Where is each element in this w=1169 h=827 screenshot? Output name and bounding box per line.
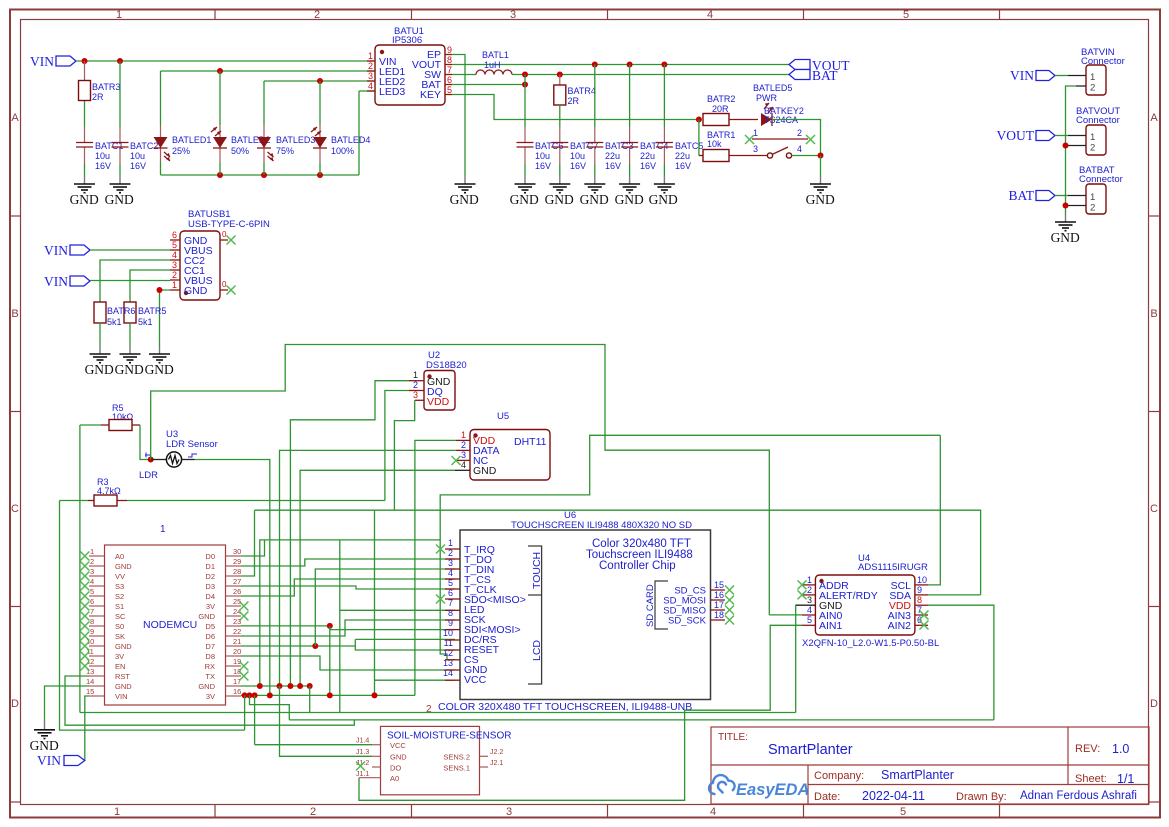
capacitor BATC6 [517, 141, 564, 171]
wire DHT11 DATA [280, 450, 457, 686]
svg-text:B: B [1150, 308, 1157, 320]
svg-text:10u: 10u [95, 151, 110, 161]
svg-text:SD CARD: SD CARD [645, 584, 656, 627]
ground GND (col 820) [806, 176, 835, 207]
ground GND (bottom left) [30, 720, 59, 753]
wire 3V16 rail [241, 694, 415, 696]
junction VIN-BATC2 [117, 58, 123, 64]
wire U2 GND pin1 [290, 381, 409, 686]
svg-text:5k1: 5k1 [138, 317, 153, 327]
wire switch to GND [820, 156, 822, 177]
svg-text:BATLED1: BATLED1 [172, 135, 211, 145]
svg-text:DHT11: DHT11 [514, 436, 547, 448]
wire BATC5 column (x664.4) [663, 65, 665, 177]
net flag VIN (bottom) [37, 753, 85, 768]
no-connect X U4 AIN3/AIN2 [920, 611, 929, 630]
svg-text:15: 15 [714, 580, 724, 590]
svg-text:KEY: KEY [420, 89, 441, 101]
svg-text:RX: RX [205, 662, 215, 671]
wire LED1 net (pin2) [161, 70, 376, 72]
svg-text:VIN: VIN [37, 753, 61, 768]
ruler numbers bottom [114, 806, 906, 818]
svg-text:3: 3 [368, 71, 373, 81]
svg-text:SENS.1: SENS.1 [443, 764, 470, 773]
svg-text:4: 4 [707, 9, 713, 21]
svg-text:TX: TX [205, 672, 215, 681]
LED BATLED5 PWR [753, 83, 804, 126]
resistor BATR6 [94, 302, 106, 346]
wire LDR right to A0 column [195, 460, 270, 696]
svg-text:4: 4 [368, 81, 373, 91]
wire D5 to SDI [241, 626, 455, 630]
wire LED row to U6 [340, 609, 455, 611]
no-connect X U6 SDO [436, 595, 445, 604]
svg-text:GND: GND [115, 642, 132, 651]
svg-text:BATR3: BATR3 [92, 82, 120, 92]
wire D2 to SDA line [241, 510, 255, 576]
svg-text:10u: 10u [535, 151, 550, 161]
junction BAT col525 [522, 72, 528, 78]
svg-text:D8: D8 [205, 652, 215, 661]
svg-text:GND: GND [184, 285, 208, 297]
svg-text:6: 6 [447, 75, 452, 85]
svg-text:BATLED4: BATLED4 [331, 135, 370, 145]
wire BATVIN pin2 down (GND column) [1066, 86, 1077, 214]
capacitor BATC4 [621, 141, 668, 171]
svg-text:16V: 16V [95, 161, 111, 171]
svg-text:USB-TYPE-C-6PIN: USB-TYPE-C-6PIN [188, 219, 270, 230]
svg-text:LED3: LED3 [379, 86, 405, 98]
LED BATLED1 [154, 135, 212, 161]
wire R3 left down to 3V rail [60, 501, 245, 731]
junction LDR node [148, 457, 154, 463]
ground GND (USB col 100) [85, 346, 114, 377]
wire BATC4 column (x629.6) [629, 65, 631, 177]
svg-text:2: 2 [368, 61, 373, 71]
svg-text:5: 5 [807, 615, 812, 625]
switch BATKEY2 [745, 128, 821, 158]
svg-text:BATLED5: BATLED5 [753, 83, 792, 93]
junction D5 branch [327, 623, 333, 629]
wire VIN to VBUS pin2 [90, 280, 170, 282]
connector BATUSB1 USB-TYPE-C-6PIN [170, 209, 270, 300]
wire R5 right to LDR junction [140, 425, 151, 460]
wire LED5 to switch column [772, 120, 821, 156]
wire VDD long rail (3V to U4 VDD) [289, 719, 994, 721]
connector BATBAT [1066, 165, 1123, 214]
wire D5 branch to 3V rail [329, 626, 331, 696]
svg-text:BAT: BAT [812, 68, 838, 83]
svg-text:4: 4 [90, 577, 94, 586]
wire U4 VDD right-down [928, 605, 994, 720]
svg-text:16V: 16V [535, 161, 551, 171]
no-connect X USB shield top [227, 236, 236, 245]
wire EP to GND [452, 55, 465, 177]
svg-text:D: D [11, 698, 19, 710]
svg-text:6: 6 [90, 597, 94, 606]
wire U2 VDD pin3 [394, 400, 414, 510]
wire BATR3 column [84, 61, 86, 176]
ground GND (right column) [1051, 214, 1080, 245]
svg-text:J1.1: J1.1 [356, 771, 369, 778]
svg-text:1uH: 1uH [484, 60, 501, 70]
svg-text:1: 1 [90, 547, 94, 556]
junction BATBAT pin2 [1063, 203, 1069, 209]
wire 3V to R3 rail [244, 695, 246, 730]
label COLOR 320X480 sub [426, 701, 692, 715]
svg-text:20R: 20R [712, 104, 729, 114]
svg-text:S2: S2 [115, 592, 124, 601]
svg-text:2: 2 [797, 128, 802, 138]
svg-text:AIN1: AIN1 [819, 620, 843, 632]
ground GND (col 664) [649, 176, 678, 207]
svg-text:VOUT: VOUT [997, 128, 1035, 143]
svg-text:1: 1 [1090, 72, 1095, 83]
svg-text:5: 5 [900, 806, 906, 818]
ruler letters left [11, 112, 19, 710]
wire GND17 rail [241, 685, 310, 687]
svg-text:5: 5 [172, 240, 177, 250]
svg-text:GND: GND [198, 612, 215, 621]
svg-text:9: 9 [447, 45, 452, 55]
svg-text:1: 1 [753, 128, 758, 138]
IC U4 ADS1115IRUGR [796, 553, 939, 649]
capacitor BATC3 [586, 141, 633, 171]
svg-text:3: 3 [807, 595, 812, 605]
wire 3V to soil VCC [254, 695, 256, 744]
svg-text:BATR5: BATR5 [138, 306, 166, 316]
junction GND17 dots [257, 683, 313, 689]
svg-text:4: 4 [807, 605, 812, 615]
svg-text:GND: GND [70, 192, 99, 207]
svg-text:J1.3: J1.3 [356, 749, 369, 756]
svg-text:14: 14 [86, 677, 94, 686]
wire VIN to VBUS pin5 [90, 249, 170, 251]
no-connect X U4 ADDR/ALERT [798, 580, 807, 599]
resistor R5 [80, 403, 140, 431]
svg-text:5: 5 [90, 587, 94, 596]
wire BATR4/BATC7 column (x560) [559, 105, 561, 176]
ruler ticks bottom [215, 805, 1000, 818]
svg-text:3V: 3V [206, 692, 215, 701]
svg-text:SD_SCK: SD_SCK [668, 616, 707, 627]
svg-text:D7: D7 [205, 642, 215, 651]
svg-text:GND: GND [1051, 230, 1080, 245]
svg-text:D4: D4 [205, 592, 215, 601]
wire DHT11 VDD [415, 440, 456, 695]
svg-text:Sheet:: Sheet: [1075, 773, 1107, 785]
svg-text:22u: 22u [675, 151, 690, 161]
net flag VOUT (right) [997, 128, 1056, 143]
junction 3V16 dots [242, 692, 378, 698]
svg-text:10k: 10k [707, 139, 722, 149]
junction D7 T_DIN branch [312, 643, 318, 649]
svg-text:17: 17 [714, 600, 724, 610]
svg-text:D0: D0 [205, 552, 215, 561]
svg-text:LDR Sensor: LDR Sensor [166, 439, 218, 450]
svg-text:15: 15 [86, 687, 94, 696]
svg-text:GND: GND [510, 192, 539, 207]
ground GND (col 465) [450, 176, 479, 207]
wire BATC3 column (x525) [524, 75, 526, 177]
junction LED4 tap [317, 78, 323, 84]
net flag VIN (top left) [30, 54, 76, 69]
svg-text:BAT: BAT [1008, 188, 1034, 203]
svg-text:GND: GND [819, 600, 843, 612]
wire VCC row to U6 [375, 679, 456, 681]
ruler numbers top [116, 9, 909, 21]
svg-text:22u: 22u [640, 151, 655, 161]
net flag BAT (right) [1008, 188, 1055, 203]
svg-text:S3: S3 [115, 582, 124, 591]
svg-text:0: 0 [222, 280, 227, 289]
resistor R3 [60, 477, 128, 506]
wire VIN to BATVIN pin1 [1055, 75, 1068, 77]
net flag VOUT (arrow left) [789, 58, 850, 73]
no-connect X USB shield bottom [227, 286, 236, 295]
svg-text:10u: 10u [130, 151, 145, 161]
svg-text:2: 2 [1090, 203, 1095, 214]
svg-text:100%: 100% [331, 146, 354, 156]
svg-text:5k1: 5k1 [107, 317, 122, 327]
ruler ticks top [215, 10, 1000, 20]
wire CC1 to BATR5 [130, 270, 170, 302]
svg-text:16V: 16V [605, 161, 621, 171]
svg-text:RST: RST [115, 672, 130, 681]
svg-text:7: 7 [90, 607, 94, 616]
svg-text:Adnan Ferdous Ashrafi: Adnan Ferdous Ashrafi [1020, 790, 1137, 802]
ground GND (col 120) [105, 176, 134, 207]
svg-text:GND: GND [198, 682, 215, 691]
resistor BATR4 [554, 75, 596, 107]
wire R5 left column down [79, 425, 81, 713]
svg-text:VIN: VIN [1010, 68, 1034, 83]
svg-text:BATR2: BATR2 [707, 94, 735, 104]
wire U4 AIN0 [769, 614, 802, 616]
svg-text:BATL1: BATL1 [482, 50, 509, 60]
wire BATC2 column [119, 61, 121, 176]
svg-text:GND: GND [30, 738, 59, 753]
svg-text:1: 1 [116, 9, 122, 21]
resistor BATR3 [79, 81, 121, 103]
svg-text:GND: GND [473, 465, 497, 477]
svg-text:SK: SK [115, 632, 125, 641]
svg-text:GND: GND [145, 362, 174, 377]
svg-text:C: C [11, 503, 19, 515]
svg-text:GND: GND [580, 192, 609, 207]
junction VOUT-BATC3 [592, 62, 598, 68]
svg-text:3: 3 [510, 9, 516, 21]
ground GND (col 630) [615, 176, 644, 207]
svg-text:B: B [11, 308, 18, 320]
ruler ticks left [10, 216, 21, 802]
svg-text:1: 1 [448, 538, 453, 548]
svg-text:4: 4 [172, 250, 177, 260]
wire SCL branch to NodeMCU GND rail [260, 540, 440, 686]
svg-text:Company:: Company: [814, 770, 864, 782]
svg-text:23: 23 [233, 617, 241, 626]
wire T_DIN branch [315, 569, 455, 646]
wire U4 AIN1 from soil A0 [359, 625, 802, 800]
svg-text:2: 2 [172, 270, 177, 280]
svg-text:2: 2 [807, 585, 812, 595]
svg-text:D2: D2 [205, 572, 215, 581]
svg-text:7: 7 [917, 605, 922, 615]
svg-text:BATC2: BATC2 [130, 141, 158, 151]
svg-text:VV: VV [115, 572, 125, 581]
IC U5 DHT11 [455, 411, 550, 480]
module SOIL-MOISTURE-SENSOR [356, 726, 511, 794]
wire GND17 drop to GND line [309, 686, 311, 713]
no-connect X NodeMCU right 3V/GND/RX/TX [239, 602, 248, 681]
svg-text:10: 10 [917, 575, 927, 585]
svg-text:1: 1 [368, 51, 373, 61]
capacitor BATC7 [551, 141, 598, 171]
svg-text:J1.4: J1.4 [356, 738, 369, 745]
svg-text:S0: S0 [115, 622, 124, 631]
wire SCL net (U4 SCL to CS branch) [440, 435, 940, 660]
svg-text:3: 3 [461, 450, 466, 460]
svg-text:LDR: LDR [139, 470, 158, 481]
junction BATVOUT pin2 [1063, 143, 1069, 149]
svg-text:2: 2 [1090, 143, 1095, 154]
svg-text:SC: SC [115, 612, 126, 621]
wire D1 to T_DO [241, 559, 455, 566]
svg-text:22u: 22u [605, 151, 620, 161]
wire D4 to T_CS [241, 579, 455, 596]
svg-text:Drawn By:: Drawn By: [956, 791, 1007, 803]
ruler ticks right [1149, 216, 1161, 802]
svg-text:U5: U5 [497, 411, 509, 422]
svg-text:2: 2 [413, 380, 418, 390]
wire VIN pin15 down to flag [85, 696, 89, 761]
svg-text:COLOR 320X480 TFT TOUCHSCREEN,: COLOR 320X480 TFT TOUCHSCREEN, ILI9488-U… [438, 701, 692, 713]
svg-text:3: 3 [90, 567, 94, 576]
svg-text:1: 1 [160, 524, 166, 535]
junction switch-GND [818, 153, 824, 159]
LED BATLED3 [257, 135, 315, 161]
svg-text:25%: 25% [172, 146, 190, 156]
LED BATLED1 column wires [160, 71, 162, 175]
ground GND (col 595) [580, 176, 609, 207]
title block frame [711, 727, 1149, 804]
wire D8 to U6 GND pin13 [241, 656, 455, 670]
svg-text:GND: GND [545, 192, 574, 207]
svg-text:SmartPlanter: SmartPlanter [768, 742, 853, 758]
wire D6 to SCK [241, 620, 455, 636]
wire VOUT to BATVOUT pin1 [1055, 135, 1068, 137]
svg-text:1.0: 1.0 [1112, 742, 1129, 756]
capacitor BATC5 [656, 141, 703, 171]
svg-text:2: 2 [461, 440, 466, 450]
junction rail LED4 [317, 172, 323, 178]
svg-text:VIN: VIN [44, 274, 68, 289]
wire RST net [65, 676, 354, 725]
photoresistor U3 LDR [139, 429, 218, 481]
resistor BATR2 [703, 94, 758, 126]
svg-text:9: 9 [917, 585, 922, 595]
EasyEDA logo [709, 775, 735, 794]
svg-text:8: 8 [448, 608, 453, 618]
svg-text:GND: GND [450, 192, 479, 207]
svg-text:GND: GND [85, 362, 114, 377]
wire D7 to RESET [241, 639, 355, 646]
LED BATLED3 column wires [263, 81, 265, 175]
svg-text:X2QFN-10_L2.0-W1.5-P0.50-BL: X2QFN-10_L2.0-W1.5-P0.50-BL [802, 638, 939, 649]
junction VOUT-BATC4 [627, 62, 633, 68]
svg-text:A: A [11, 112, 19, 124]
svg-text:TOUCH: TOUCH [531, 552, 543, 589]
wire U4 GND down [795, 605, 797, 712]
svg-text:16V: 16V [570, 161, 586, 171]
wire 3V-VCC column [374, 510, 376, 695]
svg-text:GND: GND [390, 753, 407, 762]
svg-text:DO: DO [390, 764, 401, 773]
module NODEMCU [86, 524, 241, 705]
svg-text:4: 4 [710, 806, 716, 818]
wire LED backlight column [339, 540, 341, 713]
svg-text:3V: 3V [115, 652, 124, 661]
IC U6 TOUCHSCREEN ILI9488 [443, 510, 725, 700]
svg-text:BATR4: BATR4 [568, 86, 596, 96]
wire KEY net [452, 95, 699, 120]
svg-text:22: 22 [233, 627, 241, 636]
no-connect X U6 SD pins [725, 586, 734, 625]
svg-text:1: 1 [172, 280, 177, 290]
wire GND pin14 to ground [45, 686, 90, 720]
junction LED2 tap [217, 68, 223, 74]
wire U4 SDA up [928, 594, 981, 596]
svg-text:30: 30 [233, 547, 241, 556]
svg-text:2: 2 [310, 806, 316, 818]
svg-text:1: 1 [1090, 192, 1095, 203]
svg-text:BATR6: BATR6 [107, 306, 135, 316]
wire LED2 net (pin3) [264, 80, 375, 82]
svg-text:VDD: VDD [427, 396, 450, 408]
LED BATLED2 column wires [219, 71, 221, 175]
svg-text:REV:: REV: [1075, 743, 1100, 755]
svg-text:26: 26 [233, 587, 241, 596]
svg-text:D3: D3 [205, 582, 215, 591]
svg-text:8: 8 [917, 595, 922, 605]
no-connect X NodeMCU left pins 1-12 [80, 552, 89, 671]
ground GND (USB col 159) [145, 346, 174, 377]
svg-text:75%: 75% [276, 146, 294, 156]
svg-text:C: C [1150, 503, 1158, 515]
connector BATVOUT [1066, 106, 1121, 155]
svg-text:6: 6 [917, 615, 922, 625]
svg-text:VIN: VIN [115, 692, 128, 701]
svg-text:ADS1115IRUGR: ADS1115IRUGR [858, 562, 928, 573]
svg-text:16: 16 [714, 590, 724, 600]
ground GND (col 84) [70, 176, 99, 207]
junction USB GND [157, 287, 163, 293]
wire VIN net top [76, 60, 375, 62]
svg-text:5: 5 [903, 9, 909, 21]
svg-text:VIN: VIN [44, 243, 68, 258]
svg-text:2R: 2R [568, 96, 580, 106]
svg-text:16V: 16V [675, 161, 691, 171]
wire SW to inductor [452, 74, 476, 76]
svg-text:5: 5 [447, 85, 452, 95]
svg-text:17: 17 [233, 677, 241, 686]
svg-text:D5: D5 [205, 622, 215, 631]
LED BATLED4 [311, 127, 370, 156]
svg-text:7: 7 [447, 65, 452, 75]
svg-text:GND: GND [115, 562, 132, 571]
svg-text:A: A [1150, 112, 1158, 124]
svg-text:Date:: Date: [814, 791, 840, 803]
